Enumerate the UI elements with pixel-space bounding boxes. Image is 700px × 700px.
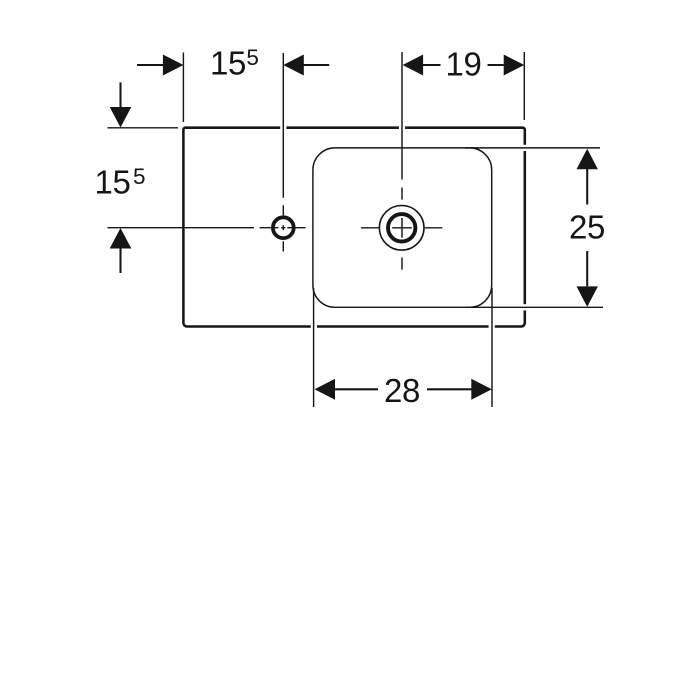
svg-text:25: 25: [569, 209, 605, 246]
drain hole inner ring: [388, 214, 415, 241]
svg-text:5: 5: [246, 45, 259, 70]
svg-text:5: 5: [133, 164, 146, 189]
outline break at top tap-hole centerline crossing: [280, 126, 286, 130]
dimension 28: left shaft: [335, 388, 378, 390]
extension line: rim top, left dim 15.5: [108, 127, 179, 129]
dimension 25: top arrowhead: [577, 149, 598, 170]
dimension 25: upper shaft: [586, 169, 588, 205]
washbasin outer rim: [183, 128, 524, 327]
dimension 15.5 left: down arrowhead: [110, 107, 132, 128]
dimension 15.5 top: left tail: [137, 64, 164, 66]
dimension 19: left arrowhead: [403, 55, 424, 76]
dimension 15.5 left: up arrowhead: [110, 228, 132, 249]
svg-text:28: 28: [384, 372, 420, 409]
dimension 19: right arrowhead: [504, 55, 525, 76]
extension line: basin top edge to right, dim 25: [465, 147, 600, 149]
extension line: basin bottom edge to right, dim 25: [465, 306, 603, 308]
dimension 28: right shaft: [427, 388, 472, 390]
tap hole: [273, 217, 294, 238]
dimension 19: right tail: [488, 64, 504, 66]
outline break at bottom edge, basin-right extension crossing: [489, 325, 495, 329]
centerline: drain horizontal crosshair: [361, 227, 442, 229]
extension/centerline: tap hole horizontal, left dim 15.5: [108, 227, 306, 229]
extension line: basin left edge down, dim 28: [313, 288, 315, 407]
extension line: left edge of rim, top dim 15.5: [182, 53, 184, 123]
dimension 15.5 left: up arrow shaft: [119, 249, 121, 274]
inner basin bowl: [313, 148, 492, 307]
drain hole outer ring: [379, 206, 424, 251]
outline break at right edge, basin-bottom extension crossing: [523, 304, 527, 310]
extension line: basin right edge down, dim 28: [491, 288, 493, 407]
svg-text:15: 15: [210, 44, 246, 81]
dimension 25: bottom arrowhead: [577, 286, 598, 307]
dimension 19: left tail: [423, 64, 441, 66]
extension/centerline: tap hole vertical: [282, 53, 284, 252]
dimension 15.5 top: right arrowhead: [283, 55, 304, 76]
outline break at right edge, basin-top extension crossing: [523, 145, 527, 151]
dimension 28: right arrowhead: [471, 379, 492, 400]
extension/centerline: drain vertical: [401, 52, 403, 270]
extension line: right edge of rim, top dim 19: [523, 52, 525, 120]
svg-text:19: 19: [446, 46, 482, 83]
outline break at top drain centerline crossing: [399, 126, 405, 130]
dimension 15.5 left: down arrow shaft: [119, 82, 121, 107]
svg-text:15: 15: [95, 164, 131, 201]
dimension 15.5 top: left arrowhead: [163, 55, 184, 76]
outline break at bottom edge, basin-left extension crossing: [311, 325, 317, 329]
dimension 25: lower shaft: [586, 251, 588, 286]
dimension 15.5 top: right tail: [304, 64, 330, 66]
dimension 28: left arrowhead: [315, 379, 336, 400]
